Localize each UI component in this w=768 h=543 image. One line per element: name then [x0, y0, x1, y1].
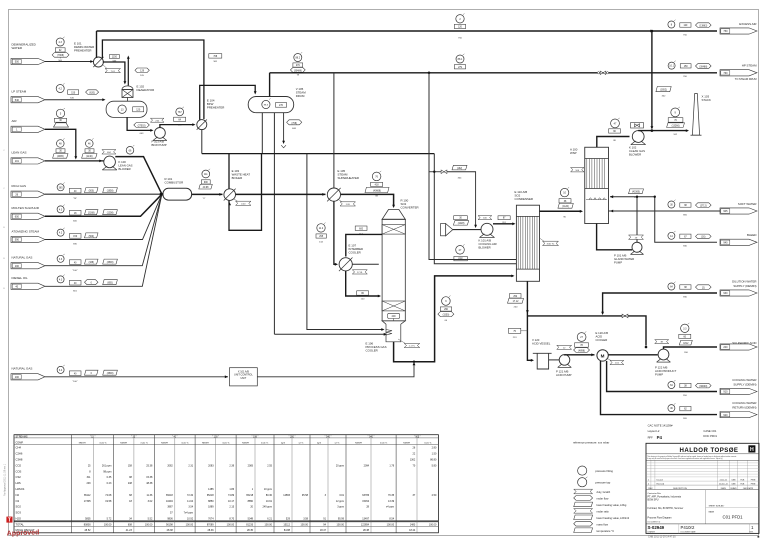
tag box interbed loop lower [357, 291, 369, 295]
svg-text:H2SO4: H2SO4 [16, 487, 25, 491]
wire: lean gas line to K 100 [45, 160, 104, 162]
svg-text:90198: 90198 [166, 524, 173, 527]
svg-text:28.52: 28.52 [84, 529, 91, 532]
svg-text:C3H8: C3H8 [16, 458, 23, 462]
svg-text:28.38: 28.38 [363, 529, 370, 532]
svg-text:DESCRIPTION: DESCRIPTION [673, 488, 687, 490]
svg-text:100.00: 100.00 [387, 524, 395, 527]
wire: deaerator vent [127, 58, 129, 86]
svg-text:905: 905 [723, 210, 728, 213]
wire: air line joining lean gas [45, 129, 76, 158]
svg-text:920: 920 [723, 414, 728, 417]
svg-text:HP STEAM: HP STEAM [742, 64, 757, 68]
svg-text:(1550): (1550) [443, 315, 450, 317]
svg-text:76.35: 76.35 [388, 494, 395, 497]
valve acid dilution [622, 314, 625, 318]
wire: WSP clean gas to K 102 [597, 137, 630, 148]
stream summary table [14, 435, 438, 533]
svg-text:DRUM: DRUM [296, 94, 305, 98]
wire: drum downcomers to bfw header [261, 113, 263, 154]
svg-text:PREHEATER: PREHEATER [207, 106, 224, 110]
svg-text:25.38: 25.38 [146, 464, 153, 467]
svg-text:(30488): (30488) [294, 70, 302, 72]
unit control unit X 101 A/B [230, 368, 258, 386]
wire: demineralized water line to E 101 [45, 61, 91, 63]
wire: drum steam to HP header [269, 73, 271, 97]
svg-text:wt %: wt % [299, 441, 304, 444]
svg-text:mole %: mole % [181, 442, 188, 444]
svg-text:600: 600 [15, 216, 20, 219]
stream outlet cooling water supply [668, 382, 675, 389]
svg-text:H2O: H2O [16, 517, 22, 521]
svg-text:NATURAL GAS: NATURAL GAS [12, 367, 33, 371]
svg-text:12 ppm: 12 ppm [336, 500, 344, 503]
svg-text:249 ppm: 249 ppm [263, 506, 273, 509]
converter internal tag [388, 313, 400, 318]
ribbon tag product [655, 340, 669, 344]
heat exchanger E 101 demin water preheater [93, 57, 103, 67]
svg-text:22-Dec-11: 22-Dec-11 [719, 483, 728, 485]
svg-text:1150: 1150 [112, 56, 118, 58]
wire: excess air header [97, 30, 652, 32]
svg-text:RICH GAS: RICH GAS [12, 184, 27, 188]
svg-text:C2H6: C2H6 [16, 452, 23, 456]
stream outlet excess air [456, 15, 464, 23]
heat exchanger E 103 waste heat boiler [224, 189, 236, 201]
instrument cluster natural gas lower [57, 366, 64, 373]
svg-text:15.38: 15.38 [146, 476, 153, 479]
svg-text:(41560): (41560) [632, 192, 640, 194]
svg-text:DATE: DATE [721, 487, 727, 490]
svg-text:AIR: AIR [12, 119, 18, 123]
svg-text:17305: 17305 [84, 500, 91, 503]
wire: atomizing steam line to combustor [45, 194, 162, 239]
svg-text:"100": "100" [72, 270, 77, 272]
svg-text:81233: 81233 [246, 524, 253, 527]
svg-text:NM3/H: NM3/H [79, 442, 86, 444]
process gas cooler E 106 [382, 321, 405, 342]
wire: WSP bottoms to P 101 [597, 224, 632, 250]
instrument bubble E 120 [577, 333, 586, 342]
svg-text:5.80: 5.80 [432, 464, 437, 467]
legend flag symbols [574, 489, 593, 494]
svg-text:11.36: 11.36 [146, 494, 153, 497]
svg-text:10.91: 10.91 [266, 500, 273, 503]
wire: air to K 101 [453, 229, 482, 231]
svg-text:Issued: Issued [657, 479, 664, 481]
svg-text:P410r2: P410r2 [681, 525, 695, 530]
svg-text:2.15: 2.15 [229, 506, 234, 509]
svg-text:2094: 2094 [364, 464, 370, 467]
svg-text:270: 270 [279, 104, 284, 107]
svg-text:PWN: PWN [751, 483, 756, 485]
svg-text:(4898): (4898) [578, 350, 585, 352]
instrument bubble lean gas flow [57, 140, 65, 148]
svg-text:pressure fitting: pressure fitting [595, 469, 613, 473]
svg-text:PUMP: PUMP [655, 372, 663, 376]
stream outlet soft water [609, 210, 721, 212]
svg-text:2082: 2082 [167, 464, 173, 467]
svg-text:mass flow: mass flow [597, 522, 609, 526]
svg-text:"100": "100" [72, 381, 77, 383]
svg-text:365: 365 [59, 186, 64, 189]
instrument cluster diesel oil [57, 276, 64, 283]
svg-text:(500): (500) [89, 236, 95, 238]
svg-text:pressure tap: pressure tap [595, 480, 610, 484]
acid cooler E 120 A/B with motor [597, 350, 608, 361]
svg-text:NAME: NAME [709, 511, 715, 514]
svg-text:CONDENSER: CONDENSER [515, 197, 533, 201]
instrument bubble P 103 discharge [176, 108, 184, 116]
instrument bubble air inlet [56, 109, 64, 117]
wire: molten sulphur line to combustor [45, 194, 162, 216]
svg-text:SHEET SIZE A3#: SHEET SIZE A3# [709, 504, 726, 507]
ribbon tag lean gas duty [102, 150, 116, 154]
svg-text:80800: 80800 [84, 524, 91, 527]
wire: superheated steam E 105 to E 107 [334, 201, 337, 264]
svg-text:3.54: 3.54 [188, 506, 193, 509]
svg-text:" 540 ": " 540 " [325, 436, 332, 438]
svg-text:910: 910 [723, 391, 728, 394]
svg-text:(40668): (40668) [373, 191, 381, 193]
svg-text:NATURAL GAS: NATURAL GAS [12, 255, 33, 259]
svg-text:Layout L2: Layout L2 [648, 429, 660, 433]
svg-text:5835: 5835 [85, 518, 91, 521]
svg-text:1483: 1483 [410, 524, 416, 527]
svg-text:CH4: CH4 [16, 446, 22, 450]
svg-text:(2712): (2712) [700, 205, 707, 207]
svg-text:(620): (620) [89, 92, 95, 94]
stack X 103 [692, 94, 699, 136]
svg-text:80.30: 80.30 [266, 494, 273, 497]
svg-text:BLEED: BLEED [747, 233, 756, 237]
svg-text:608: 608 [128, 524, 133, 527]
svg-text:7e4 ppm: 7e4 ppm [184, 512, 194, 515]
svg-text:9836: 9836 [167, 518, 173, 521]
svg-text:BLOWER: BLOWER [629, 152, 641, 156]
svg-text:10 ppm: 10 ppm [264, 488, 272, 491]
svg-text:Revised: Revised [657, 483, 665, 485]
ribbon tag condenser duty [543, 241, 559, 245]
svg-text:2-Dec-11: 2-Dec-11 [720, 479, 728, 481]
svg-text:RFF: RFF [648, 436, 654, 440]
svg-text:3.01: 3.01 [339, 494, 344, 497]
wire: cooling water supply to E 120 [607, 361, 717, 392]
wire: demin water from E 101 to deaerator [103, 62, 125, 83]
svg-text:" 940 ": " 940 " [368, 436, 375, 438]
svg-text:H: H [750, 447, 754, 453]
svg-text:590: 590 [15, 239, 20, 242]
svg-text:NM3/H: NM3/H [242, 442, 249, 444]
svg-text:(2168): (2168) [88, 213, 95, 215]
wire: letdown valve line to K 101 [429, 171, 441, 173]
svg-text:7674: 7674 [208, 518, 214, 521]
svg-text:DOCUMENT ID: DOCUMENT ID [648, 522, 661, 524]
svg-text:(1140): (1140) [86, 156, 93, 158]
svg-text:5.52: 5.52 [148, 518, 153, 521]
instrument bubble interbed [317, 224, 325, 232]
svg-text:STREAMS: STREAMS [16, 435, 28, 438]
svg-text:(3052): (3052) [660, 90, 667, 92]
svg-text:NM3/H: NM3/H [202, 442, 209, 444]
converter bed 2 packing [382, 301, 405, 311]
converter bed 1 packing [382, 225, 405, 235]
svg-text:" 35 ": " 35 " [131, 436, 137, 438]
tag box header [209, 54, 222, 58]
instrument cluster rich gas [57, 184, 64, 191]
svg-text:(13862): (13862) [699, 25, 707, 27]
svg-text:H2S: H2S [16, 481, 21, 485]
svg-text:BOILER: BOILER [232, 176, 243, 180]
svg-text:temperature °C: temperature °C [597, 529, 615, 533]
svg-text:98 ppm: 98 ppm [103, 470, 111, 473]
svg-text:0.23: 0.23 [107, 482, 112, 485]
wire: downcomer to E 106 [274, 333, 385, 335]
svg-text:120: 120 [136, 108, 141, 111]
parallelogram tag letdown flow [452, 165, 467, 170]
svg-text:SUPPLY (DEMIN): SUPPLY (DEMIN) [733, 284, 756, 288]
svg-text:65112: 65112 [84, 494, 91, 497]
svg-text:10.1: 10.1 [669, 65, 674, 68]
svg-text:1889: 1889 [208, 506, 214, 509]
svg-text:REV.: REV. [750, 532, 754, 534]
instrument bubble condenser outlet [560, 188, 568, 196]
title block Haldor Topsoe [646, 443, 759, 533]
svg-text:UNIT: UNIT [240, 377, 246, 380]
air inlet silencer [54, 123, 69, 127]
tag box bfw temperature [174, 117, 186, 121]
svg-text:CS2: CS2 [16, 475, 22, 479]
svg-text:767: 767 [178, 111, 183, 114]
tag box E 101 outlet temperature [109, 55, 119, 59]
svg-text:65218: 65218 [207, 494, 214, 497]
ribbon tag WSP inlet [571, 168, 585, 172]
approved stamp [6, 517, 12, 523]
pump P 101 A/B gland water pump [632, 242, 642, 252]
svg-text:13497: 13497 [362, 518, 369, 521]
valve on HP steam line [600, 71, 603, 74]
svg-text:940: 940 [723, 242, 728, 245]
svg-text:HALDOR TOPSØE: HALDOR TOPSØE [680, 447, 739, 454]
svg-text:74.89: 74.89 [228, 494, 235, 497]
wire: natural gas X 101 to process gas line [257, 364, 414, 377]
svg-text:" 905 ": " 905 " [414, 436, 421, 438]
svg-text:NM3/H: NM3/H [403, 442, 410, 444]
svg-text:NM3/H: NM3/H [355, 442, 362, 444]
svg-text:(3800): (3800) [107, 262, 114, 264]
wire: condenser cold bfw line [434, 154, 516, 264]
svg-text:SOFT WATER: SOFT WATER [738, 202, 757, 206]
stream outlet bleed [668, 232, 675, 239]
instrument bubble demin water inlet [56, 38, 64, 46]
svg-text:mole %: mole % [424, 442, 431, 444]
svg-text:100.00: 100.00 [337, 524, 345, 527]
ribbon tag E 107 duty [352, 270, 367, 274]
ribbon tag E 120 duty [610, 360, 624, 364]
svg-text:NM3/H: NM3/H [120, 442, 127, 444]
svg-text:ACID VESSEL: ACID VESSEL [532, 341, 551, 345]
svg-text:11.64: 11.64 [187, 500, 194, 503]
svg-text:261 ppm: 261 ppm [102, 464, 112, 467]
svg-text:2083: 2083 [208, 464, 214, 467]
svg-text:5.72: 5.72 [107, 518, 112, 521]
svg-text:14583: 14583 [283, 494, 290, 497]
parallelogram tag downflow [656, 87, 671, 92]
svg-text:T: T [8, 518, 11, 524]
instrument bubble LP steam inlet [56, 85, 64, 93]
svg-text:PFF: PFF [458, 259, 463, 261]
svg-text:S-02949: S-02949 [648, 525, 665, 530]
legend pressure symbols [578, 466, 587, 475]
svg-text:ATOMIZING STEAM: ATOMIZING STEAM [12, 229, 40, 233]
svg-text:reference pressure: xxx mbar: reference pressure: xxx mbar [573, 440, 609, 444]
svg-text:88.2: 88.2 [295, 57, 300, 60]
svg-text:DRAWER: DRAWER [648, 531, 656, 534]
SO2 condenser E 110 A/B [516, 205, 539, 281]
svg-text:48.38: 48.38 [146, 482, 153, 485]
svg-text:N2: N2 [16, 493, 20, 497]
svg-text:28.35: 28.35 [247, 529, 254, 532]
svg-text:65218: 65218 [166, 494, 173, 497]
instrument bubble cooling air [456, 246, 465, 255]
svg-text:molar ratio: molar ratio [597, 510, 610, 514]
svg-text:65218: 65218 [246, 494, 253, 497]
steam drum V 105 [248, 97, 294, 113]
wire: E 104 to steam drum [200, 85, 256, 119]
wire: E 120 to P 122 [608, 354, 658, 356]
svg-text:lower heating value, kJ/Nm3: lower heating value, kJ/Nm3 [597, 516, 630, 520]
svg-text:(855): (855) [107, 283, 113, 285]
svg-text:0.35: 0.35 [107, 476, 112, 479]
instrument bubble K 100 discharge [126, 147, 134, 155]
svg-text:BSW SPU: BSW SPU [648, 498, 659, 501]
wire: drum drain [283, 113, 285, 142]
svg-text:100: 100 [15, 376, 20, 379]
svg-text:BLOWER: BLOWER [479, 245, 491, 249]
svg-text:REV.: REV. [648, 488, 653, 490]
svg-text:SO3: SO3 [16, 511, 22, 515]
svg-text:" 198 ": " 198 " [252, 436, 259, 438]
wire: natural gas line to combustor [45, 194, 162, 266]
svg-text:CNB 2011-11-29 14:47:35: CNB 2011-11-29 14:47:35 [648, 536, 676, 539]
instrument cluster molten sulphur [57, 206, 64, 213]
svg-text:100.00: 100.00 [429, 524, 437, 527]
wet scrubber A 100 WSP [585, 147, 609, 223]
tag box air intake [454, 216, 468, 220]
wire: superheater steam from HP header [333, 73, 335, 188]
svg-text:1.1 TC: 1.1 TC [409, 346, 416, 348]
svg-text:760: 760 [723, 72, 728, 75]
svg-text:wt %: wt % [335, 441, 340, 444]
wire: P 122 discharge sulphuric acid product [664, 347, 718, 349]
instrument bubble K 102 [611, 119, 620, 128]
wire: E 101 shell outlet to excess air header [96, 31, 98, 58]
wire: P 121 discharge to E 120 [565, 354, 595, 356]
wire: condenser clean gas outlet to WSP [540, 210, 582, 212]
svg-text:2.39: 2.39 [229, 464, 234, 467]
instrument bubble stack flow [671, 108, 680, 117]
svg-text:" 200 ": " 200 " [289, 436, 296, 438]
wire: E 101 to E 104 bfw line [102, 40, 203, 119]
svg-text:Process Flow Diagram: Process Flow Diagram [648, 516, 672, 519]
svg-text:TOTAL: TOTAL [16, 523, 25, 527]
wire: P 101 discharge [636, 197, 638, 243]
valve on K 102 discharge [631, 123, 644, 128]
air intake filter [441, 224, 446, 236]
instrument cluster natural gas upper [57, 255, 64, 262]
svg-text:84.88: 84.88 [284, 529, 291, 532]
svg-text:" 15 ": " 15 " [90, 436, 96, 438]
svg-text:1362: 1362 [410, 459, 416, 462]
heat exchanger E 104 bfw preheater [197, 120, 207, 130]
svg-text:(168): (168) [89, 262, 95, 264]
svg-text:RETURN (DEMIN): RETURN (DEMIN) [732, 405, 756, 409]
valve letdown [441, 170, 444, 174]
svg-text:COOLER: COOLER [349, 251, 361, 255]
svg-text:P4: P4 [657, 435, 663, 440]
svg-text:41.23: 41.23 [126, 529, 133, 532]
wire: E 107 steam side outlet [352, 263, 379, 265]
svg-text:C01 PFD1: C01 PFD1 [723, 515, 744, 520]
deaerator storage drum [106, 101, 147, 117]
wire: K 101 discharge to condenser [493, 223, 514, 225]
ribbon tag E 105 duty [340, 202, 356, 206]
ribbon tag E 103 duty [228, 203, 231, 206]
svg-text:100.00: 100.00 [301, 524, 309, 527]
tag box K 101 discharge [498, 216, 510, 220]
wire: excess air drop to stack line [651, 31, 653, 128]
pump P 122 A/B acid product pump [658, 349, 669, 360]
svg-text:(4995): (4995) [57, 156, 64, 158]
svg-text:TO STEAM DRUM: TO STEAM DRUM [735, 77, 757, 81]
instrument bubble E 106 outlet [442, 297, 451, 306]
instrument bubble drum level [294, 54, 302, 62]
svg-text:duty, Gcal/h: duty, Gcal/h [597, 490, 611, 494]
svg-text:DOC PFD1: DOC PFD1 [703, 434, 717, 438]
svg-text:" 40 ": " 40 " [172, 436, 178, 438]
svg-text:PUMP: PUMP [614, 260, 622, 264]
svg-text:1.50: 1.50 [432, 453, 437, 456]
ribbon tag E 101 duty [105, 69, 121, 73]
hexagon tag drum blowdown [287, 120, 302, 125]
wire: main process gas line combustor to converter [192, 193, 223, 195]
svg-text:2.31: 2.31 [188, 464, 193, 467]
svg-text:(30000): (30000) [699, 386, 707, 388]
wire: P 103 discharge to E 104 [160, 125, 194, 128]
svg-text:19.58: 19.58 [105, 500, 112, 503]
acid vessel V 120 [533, 352, 552, 354]
svg-text:101: 101 [15, 160, 20, 163]
svg-text:e4 ppm: e4 ppm [386, 506, 394, 509]
svg-text:95.58: 95.58 [302, 494, 309, 497]
svg-text:2.50: 2.50 [432, 494, 437, 497]
svg-text:NM3/H: NM3/H [161, 442, 168, 444]
svg-text:529: 529 [286, 518, 291, 521]
wire: rich gas line to combustor [45, 193, 162, 195]
svg-text:5348: 5348 [248, 518, 254, 521]
svg-text:87089: 87089 [207, 524, 214, 527]
stream outlet HP steam [668, 62, 675, 69]
svg-text:DIESEL OIL: DIESEL OIL [12, 276, 29, 280]
svg-text:95.99: 95.99 [338, 518, 345, 521]
svg-text:8.70: 8.70 [229, 518, 234, 521]
svg-text:CAC NOTE 141159#: CAC NOTE 141159# [648, 424, 673, 428]
svg-text:2.80: 2.80 [432, 447, 437, 450]
svg-text:PWN: PWN [751, 479, 756, 481]
wire: process gas E 106 to SO2 condenser [394, 276, 513, 362]
svg-text:COMBUSTOR: COMBUSTOR [165, 181, 184, 185]
svg-text:540: 540 [15, 99, 20, 102]
